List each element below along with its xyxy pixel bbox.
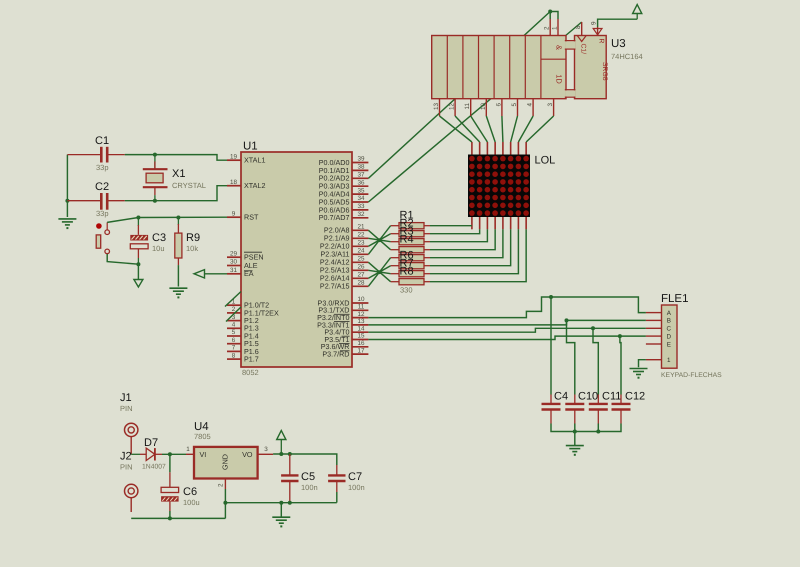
svg-text:2: 2 [544,26,551,30]
resistor R5 [391,255,430,261]
svg-text:38: 38 [357,164,365,171]
svg-text:1: 1 [186,446,190,453]
wires resistors to matrix bottom pins [430,226,526,282]
svg-text:100n: 100n [301,483,318,492]
svg-text:1: 1 [551,26,558,30]
capacitor C6 100u [161,454,200,518]
svg-text:39: 39 [357,156,365,163]
capacitor C1 [67,135,124,172]
wire rail to ground [66,201,68,217]
ground (crystal rail) [58,219,76,229]
svg-text:11: 11 [464,103,471,110]
svg-text:VO: VO [242,450,253,459]
wire P3.4 to keypad C [368,328,646,332]
wire button top to RST node [107,218,138,223]
junction C5 bottom [288,501,292,505]
capacitor C12 [612,391,646,424]
wire tap to C12 [620,336,621,394]
wire RST row [138,216,227,218]
resistor R2 [391,231,430,237]
LED matrix LOL [468,155,555,218]
LED matrix top pins [472,142,526,155]
resistor R6 [391,263,430,269]
wire pins 1-2 tie [550,12,558,20]
svg-text:24: 24 [357,248,365,255]
ground (caps bus) [566,432,584,456]
U1 left pin numbers [230,153,238,359]
svg-text:C4: C4 [554,391,568,403]
resistor R7 [391,271,430,277]
junction C11 tap [591,326,595,330]
svg-text:21: 21 [357,224,365,231]
svg-text:35: 35 [357,187,365,194]
junction C6 bottom rail [168,516,172,520]
svg-text:&: & [555,45,564,50]
svg-text:C2: C2 [95,181,109,193]
LED matrix bottom pins [472,217,526,229]
svg-text:CRYSTAL: CRYSTAL [172,181,206,190]
wire U4 GND to ground rail [224,489,226,518]
svg-text:P1.7: P1.7 [244,355,259,364]
junction bus C10 [573,430,577,434]
junction C3 top [136,216,140,220]
ground (regulator) [272,503,290,528]
svg-text:J2: J2 [120,451,132,463]
svg-text:37: 37 [357,172,365,179]
svg-text:2: 2 [218,483,225,487]
wire stub at P1.0 [225,292,241,307]
svg-text:10: 10 [357,296,365,303]
svg-text:1N4007: 1N4007 [142,464,166,471]
svg-text:22: 22 [357,232,365,239]
junction cross B [378,270,382,274]
svg-text:4: 4 [527,103,534,107]
svg-text:12: 12 [449,103,456,111]
resistor R1 [391,223,430,229]
svg-text:13: 13 [433,103,440,111]
wire button bottom to C3 bottom [107,254,138,264]
svg-text:33p: 33p [96,209,109,218]
svg-text:7805: 7805 [194,432,211,441]
svg-text:27: 27 [357,272,365,279]
svg-text:3: 3 [264,446,268,453]
junction U3 data input [548,10,552,14]
junction bus C11 [596,430,600,434]
svg-text:5: 5 [511,103,518,107]
terminal arrow at EA [194,270,227,278]
U1 right pin names [317,158,349,359]
junction C10 tap [565,318,569,322]
wire bottom rail J2-C6-U4 [131,517,225,519]
svg-text:28: 28 [357,280,365,287]
svg-text:C1: C1 [95,135,109,147]
svg-text:8052: 8052 [242,368,259,377]
capacitor C3 (electrolytic 10u) [130,218,166,265]
keypad pins [646,313,662,360]
svg-text:10u: 10u [152,244,165,253]
svg-text:SRG8: SRG8 [601,62,608,81]
arrow ground (button/C3) [134,280,143,288]
ground (keypad) [630,369,648,379]
wire C1 left vertical rail [66,155,68,201]
connector J1 [120,392,138,454]
svg-text:GND: GND [221,454,230,470]
svg-text:29: 29 [230,250,238,257]
wires P2.4-P2.7 to R8-R5 (cross) [368,258,390,287]
junction C12 tap [618,334,622,338]
svg-text:23: 23 [357,240,365,247]
capacitor C10 [565,391,598,424]
svg-text:C12: C12 [625,391,645,403]
junction C2/X1 bottom [153,199,157,203]
connector J2 [120,451,138,513]
svg-text:12: 12 [357,311,365,318]
junction ground tap [279,501,283,505]
wire U3 reset to VCC [598,19,638,27]
svg-text:10: 10 [480,103,487,111]
U1 left pins [227,160,241,359]
diode D7 1N4007 [131,437,166,471]
svg-text:1D: 1D [555,74,564,84]
keypad pin letters [667,310,672,364]
wire ground rail C5 C7 [225,502,336,504]
wire VO rail [273,454,337,465]
U3 bottom pins [440,99,554,116]
mcu U1 body [241,141,352,378]
svg-text:9: 9 [232,210,236,217]
svg-text:FLE1: FLE1 [661,293,689,305]
svg-text:XTAL2: XTAL2 [244,181,265,190]
svg-text:6: 6 [232,337,236,344]
svg-text:100u: 100u [183,498,200,507]
svg-text:P2.7/A15: P2.7/A15 [320,282,350,291]
junction left rail / C2 [65,199,69,203]
svg-text:J1: J1 [120,392,132,404]
capacitor C4 [542,391,569,424]
junction C5 top [288,452,292,456]
svg-text:P0.7/AD7: P0.7/AD7 [319,213,350,222]
svg-text:1: 1 [667,357,671,364]
resistor R9 [175,218,200,266]
svg-text:U1: U1 [243,141,258,153]
crystal X1 [143,155,206,201]
svg-text:330: 330 [400,286,413,295]
keypad FLE1 body [661,293,722,379]
svg-text:KEYPAD-FLECHAS: KEYPAD-FLECHAS [661,372,722,379]
U1 left pin names [244,156,279,364]
svg-text:PIN: PIN [120,463,133,472]
svg-text:18: 18 [230,179,238,186]
svg-text:25: 25 [357,256,365,263]
svg-text:C7: C7 [348,471,362,483]
power arrow at VO [277,431,286,455]
svg-text:U3: U3 [611,38,626,50]
capacitor C5 100n [281,454,318,503]
junction C1/X1 top [153,153,157,157]
svg-text:C3: C3 [152,232,166,244]
svg-text:11: 11 [358,304,365,311]
U3 top pins 1 2 8 9 [544,19,598,36]
wire to arrow ground [137,264,139,279]
U3 reset wedge pin 9 [593,29,602,35]
resistor R8 [391,279,430,285]
wire D7 to U4 VI [162,453,186,455]
junction cross A [378,238,382,242]
U1 right pins [352,163,368,355]
svg-text:C11: C11 [602,391,621,403]
svg-text:X1: X1 [172,168,185,180]
wire caps bottom bus [551,424,621,432]
resistor R4 [391,247,430,253]
svg-text:C10: C10 [578,391,598,403]
resistor R3 [391,239,430,245]
svg-text:7: 7 [232,345,236,352]
svg-text:C1/: C1/ [580,44,587,55]
svg-text:17: 17 [357,347,365,354]
wire C2 to XTAL2 node [125,186,227,201]
power arrow top [633,5,642,20]
wire P3.3 to keypad B [368,320,646,325]
svg-text:E: E [667,341,671,348]
svg-text:26: 26 [357,264,365,271]
shift register U3 74HC164 body [432,36,643,99]
svg-text:PIN: PIN [120,404,133,413]
ground (R9) [169,288,187,298]
svg-text:C5: C5 [301,471,315,483]
svg-text:R9: R9 [186,232,200,244]
svg-text:XTAL1: XTAL1 [244,156,265,165]
svg-text:15: 15 [357,333,365,340]
svg-text:30: 30 [230,259,238,266]
svg-text:6: 6 [495,103,502,107]
svg-text:19: 19 [230,153,238,160]
svg-text:8: 8 [575,25,582,29]
svg-text:5: 5 [232,329,236,336]
wire P0.2 to U3 data input (diagonal) [368,12,550,179]
svg-text:33p: 33p [96,163,109,172]
wire P3.2 to keypad A [368,297,646,318]
capacitor C2 [67,181,124,218]
wire keypad pin1 to ground [639,360,646,368]
wire P0.5 to U3 clock (diagonal) [368,22,581,202]
resistor labels [400,210,414,295]
svg-text:R8: R8 [400,266,414,278]
svg-text:10k: 10k [186,244,198,253]
svg-text:RST: RST [244,213,259,222]
junction U4 GND / rail [223,501,227,505]
svg-text:C6: C6 [183,486,197,498]
svg-text:R: R [598,39,605,44]
capacitor C11 [589,391,622,424]
push button [96,222,109,253]
wire tap to C10 [567,320,575,394]
svg-text:LOL: LOL [535,155,556,167]
svg-text:32: 32 [357,211,365,218]
capacitor C7 100n [328,465,365,503]
svg-text:VI: VI [200,450,207,459]
U3 bottom pin numbers [433,103,554,111]
svg-text:16: 16 [357,340,365,347]
regulator U4 7805 [186,421,273,489]
wires U3 outputs to matrix columns [440,116,554,142]
wire P3.5 to keypad D [368,336,646,339]
svg-text:31: 31 [230,267,238,274]
svg-text:34: 34 [357,195,365,202]
svg-text:14: 14 [357,325,365,332]
junction R9 top [176,216,180,220]
junction arrow tap [279,452,283,456]
svg-text:D: D [667,333,672,340]
wire tap to C11 [593,328,598,394]
svg-text:74HC164: 74HC164 [611,52,643,61]
junction C4 tap [549,295,553,299]
wire R9 to ground [177,265,179,286]
svg-text:13: 13 [357,318,365,325]
svg-text:R4: R4 [400,234,414,246]
svg-text:3: 3 [547,103,554,107]
wires P2.0-P2.3 to R4-R1 (cross) [368,226,390,255]
U3 clock wedge pin 8 [577,36,586,42]
svg-text:36: 36 [357,179,365,186]
svg-text:33: 33 [357,203,365,210]
svg-text:B: B [667,318,671,325]
junction C3 bottom [136,262,140,266]
wire stub at P1.2 [226,307,241,322]
svg-text:D7: D7 [144,437,158,449]
wire tap to C4 [550,297,552,395]
U1 right pin numbers [357,156,365,355]
wire C1 to XTAL1 node [125,155,227,161]
svg-text:100n: 100n [348,483,365,492]
svg-text:9: 9 [591,21,598,25]
junction C6 top [168,452,172,456]
svg-text:C: C [667,326,672,333]
svg-text:4: 4 [232,322,236,329]
svg-text:8: 8 [232,352,236,359]
